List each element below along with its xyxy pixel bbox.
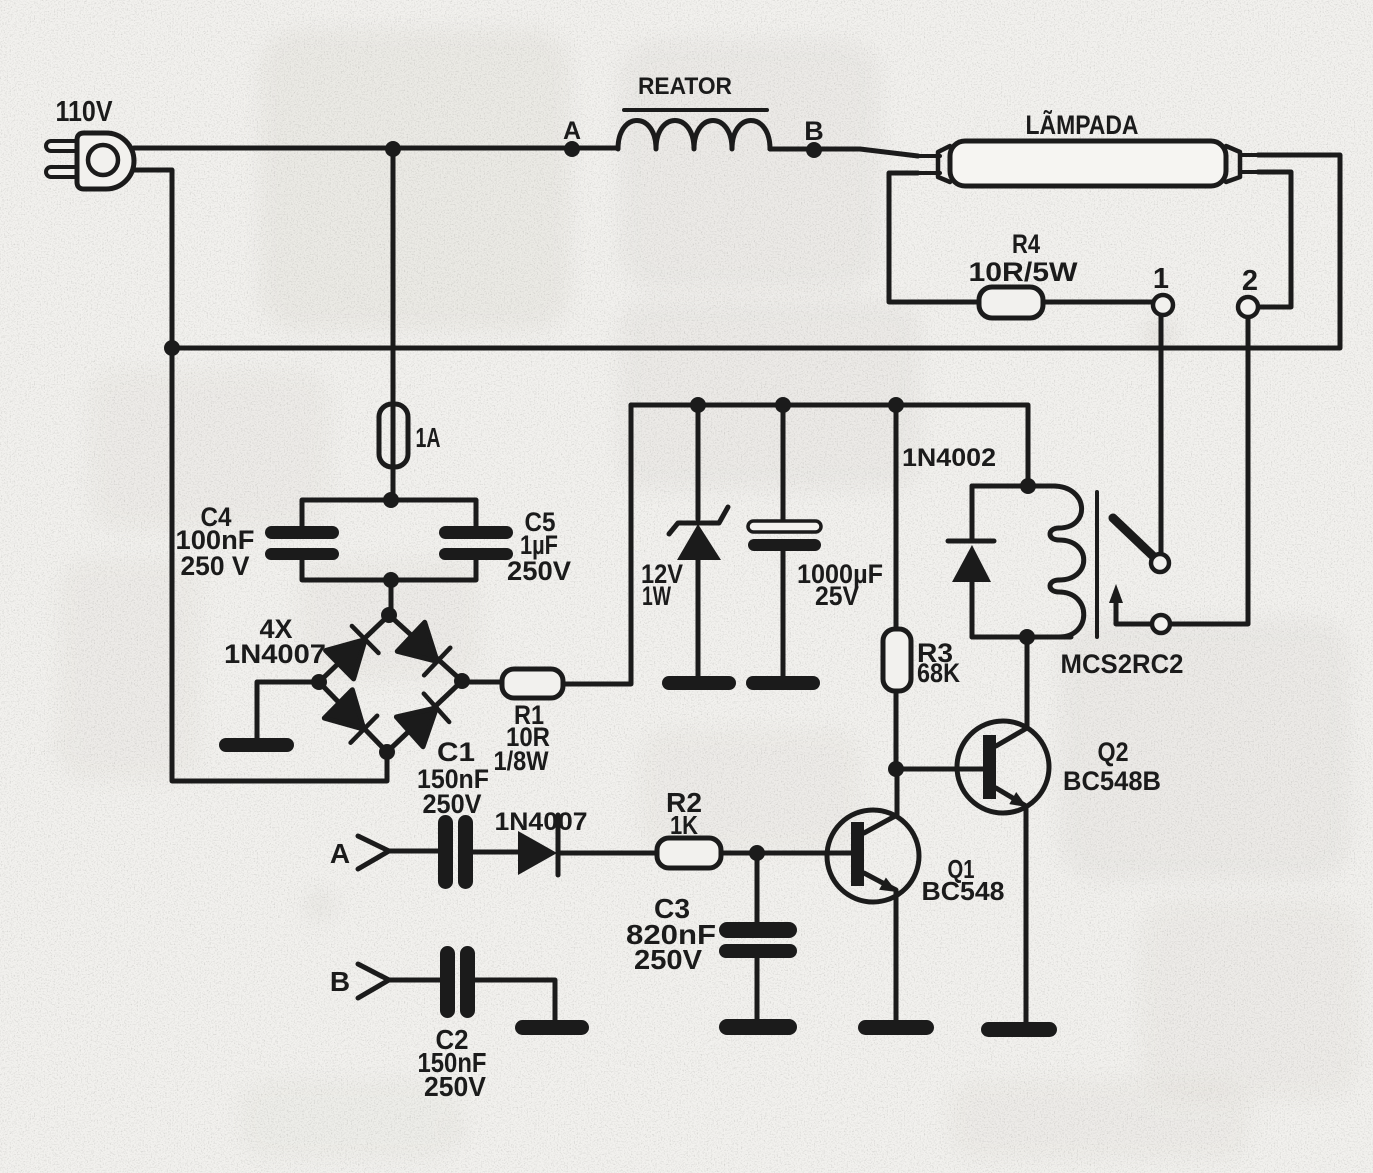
svg-text:LÃMPADA: LÃMPADA (1026, 109, 1139, 140)
svg-text:Q2: Q2 (1098, 737, 1129, 767)
svg-text:MCS2RC2: MCS2RC2 (1061, 649, 1184, 679)
svg-text:250V: 250V (507, 556, 571, 586)
svg-text:1N4007: 1N4007 (224, 639, 326, 669)
svg-text:68K: 68K (917, 658, 960, 688)
svg-text:1: 1 (1153, 263, 1169, 295)
svg-text:A: A (330, 838, 350, 869)
svg-text:REATOR: REATOR (638, 73, 732, 100)
svg-text:250V: 250V (634, 944, 702, 975)
svg-text:1A: 1A (416, 422, 441, 453)
svg-text:10R/5W: 10R/5W (969, 257, 1079, 287)
svg-text:250 V: 250 V (181, 551, 250, 581)
svg-text:1W: 1W (642, 581, 671, 611)
svg-text:1N4002: 1N4002 (902, 444, 996, 472)
svg-text:25V: 25V (815, 581, 859, 611)
svg-text:B: B (330, 966, 350, 997)
svg-text:BC548B: BC548B (1063, 766, 1161, 796)
svg-text:A: A (563, 117, 581, 145)
svg-text:1/8W: 1/8W (494, 746, 549, 776)
svg-text:B: B (804, 116, 824, 146)
svg-text:R4: R4 (1012, 229, 1040, 259)
svg-text:C1: C1 (437, 737, 475, 767)
svg-text:110V: 110V (56, 96, 114, 128)
svg-text:250V: 250V (423, 789, 482, 819)
svg-text:BC548: BC548 (922, 876, 1005, 906)
svg-text:1N4007: 1N4007 (495, 808, 588, 836)
svg-text:1K: 1K (670, 810, 698, 840)
svg-text:2: 2 (1242, 265, 1258, 297)
svg-text:250V: 250V (424, 1071, 486, 1102)
